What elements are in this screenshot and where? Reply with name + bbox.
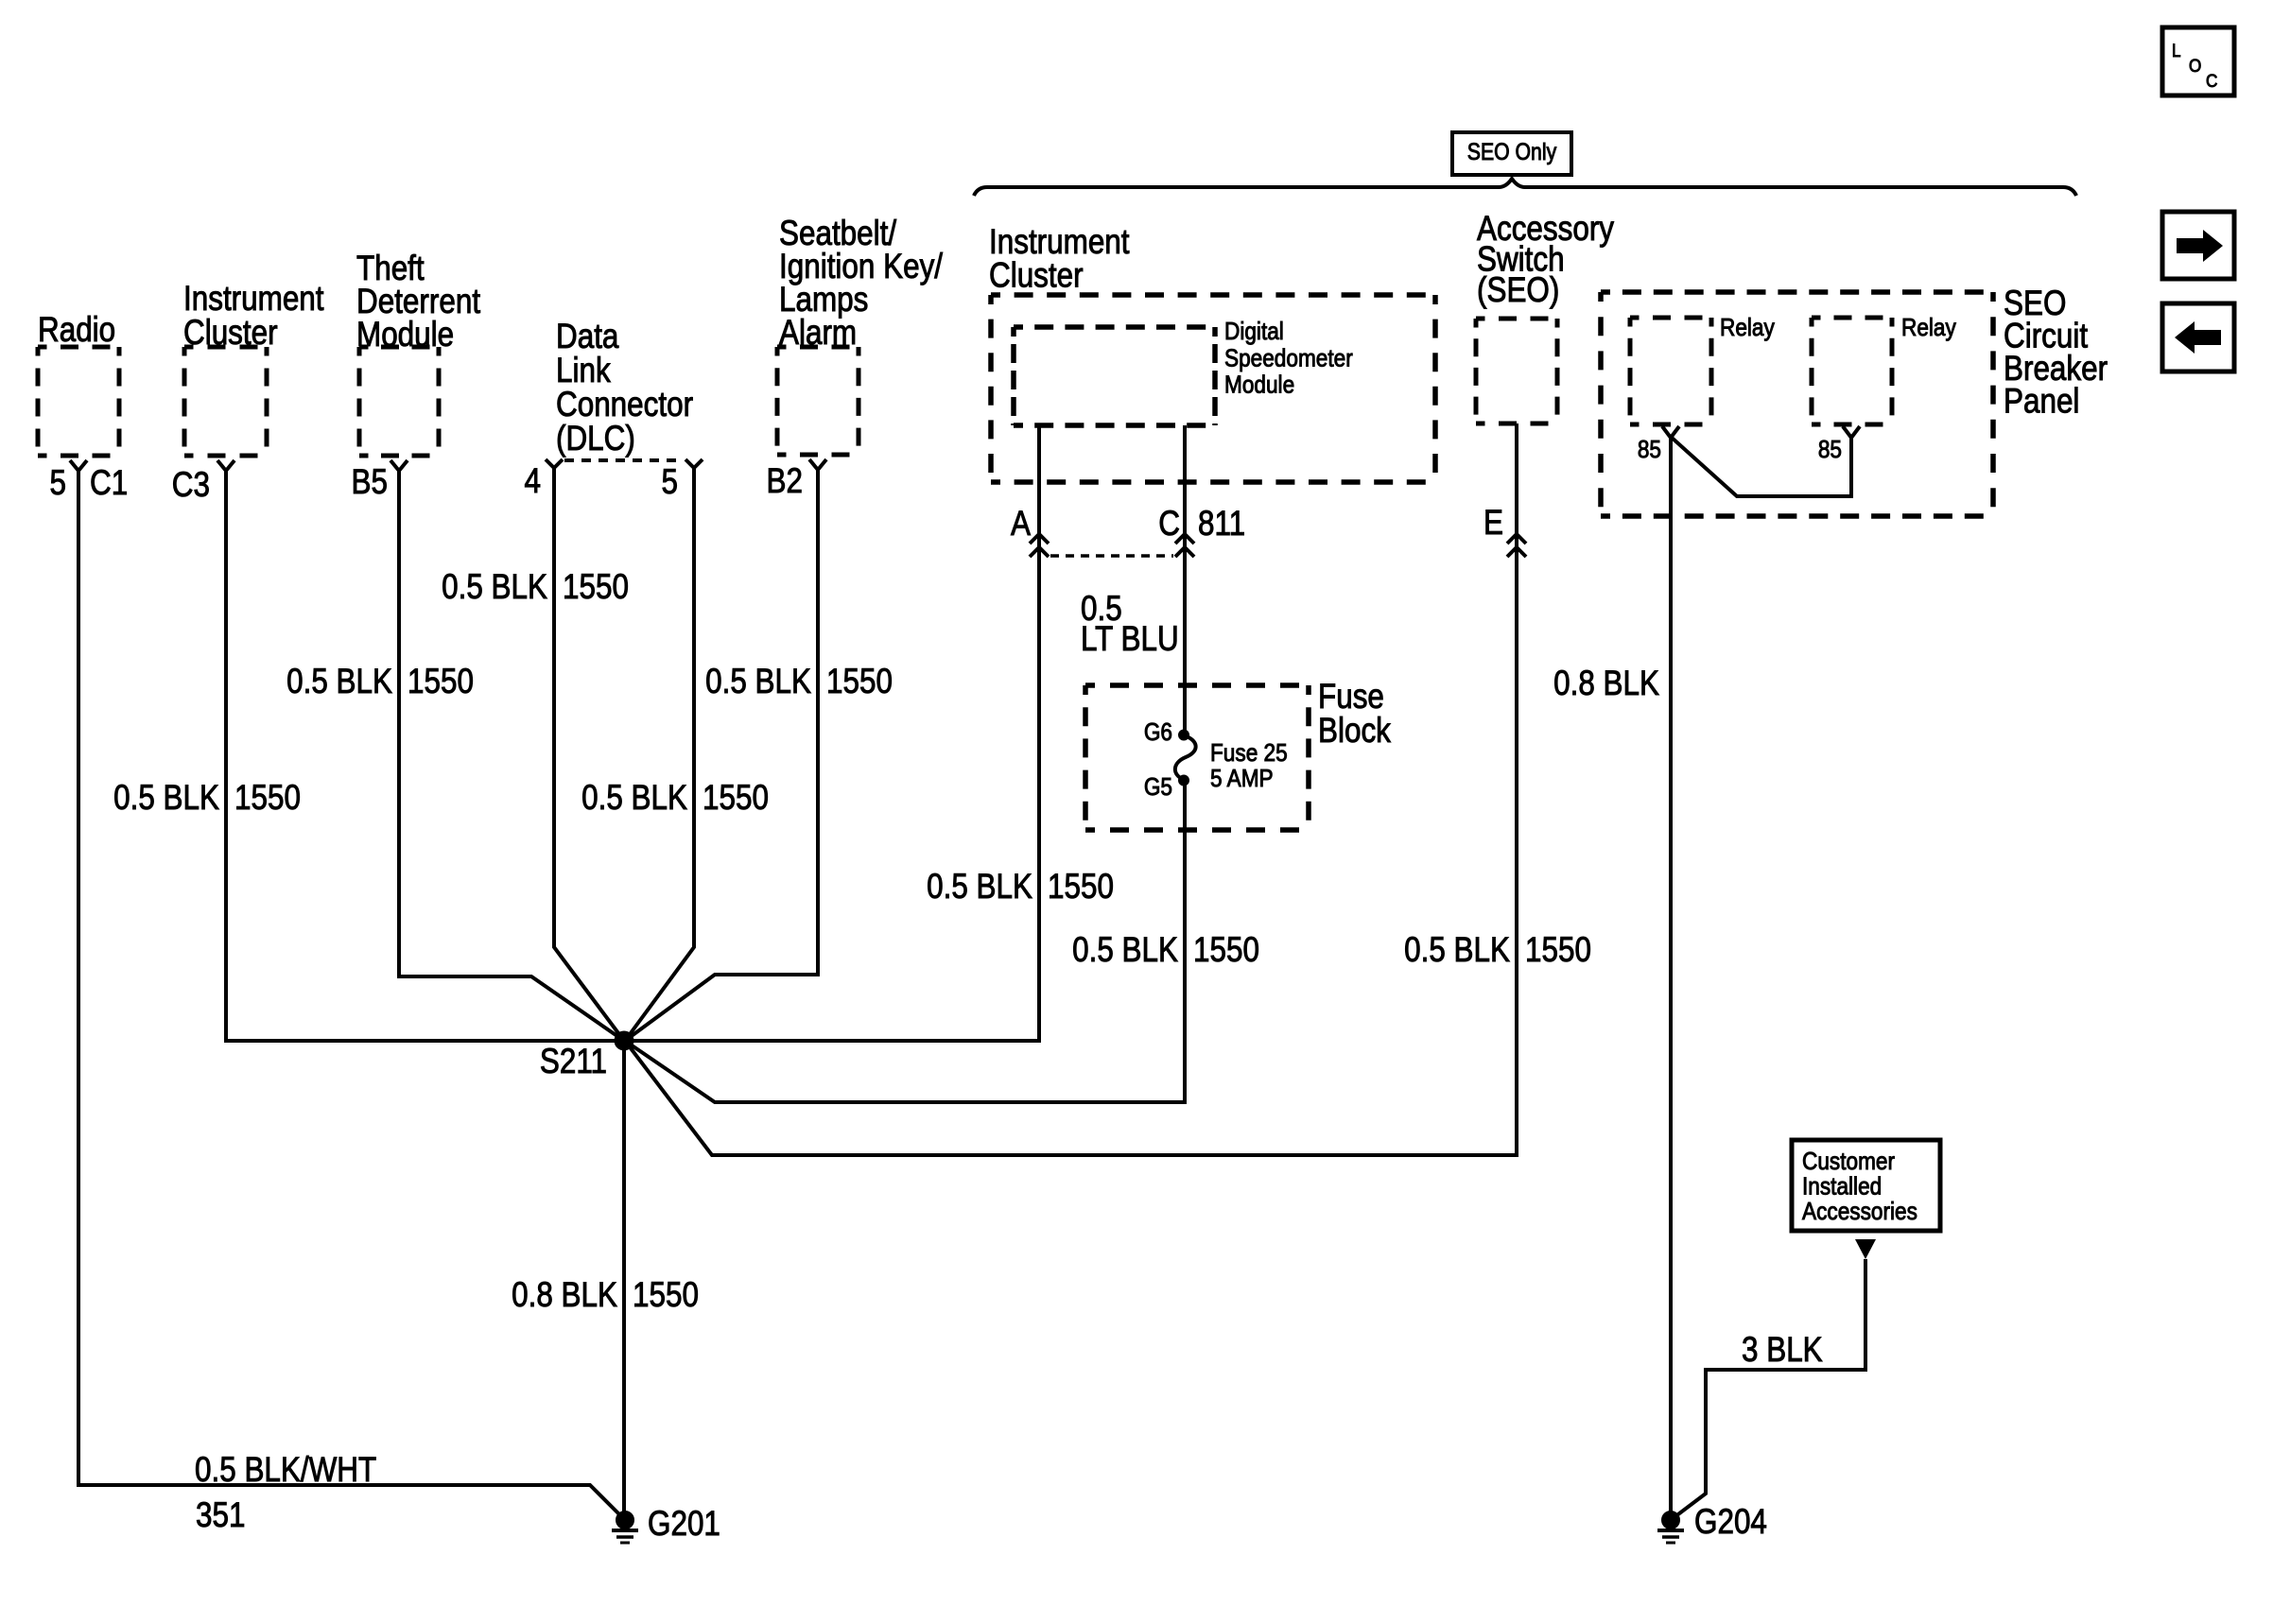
svg-text:Module: Module [356,316,454,354]
svg-text:0.5 BLK: 0.5 BLK [442,568,547,607]
svg-text:0.5 BLK: 0.5 BLK [1072,931,1178,970]
terminal 5 C1 of Radio [50,460,129,503]
svg-text:85: 85 [1818,437,1842,464]
svg-text:G201: G201 [648,1505,720,1544]
inline connector dashed link A to C [1050,554,1173,558]
label Data Link Connector (DLC) [556,318,693,458]
svg-text:Block: Block [1318,712,1392,751]
svg-text:Module: Module [1224,371,1294,399]
svg-text:0.8 BLK: 0.8 BLK [512,1276,617,1315]
svg-text:Relay: Relay [1720,315,1776,342]
svg-text:0.8 BLK: 0.8 BLK [1553,665,1659,703]
svg-text:B5: B5 [352,463,388,502]
svg-text:5 AMP: 5 AMP [1210,766,1274,793]
label Fuse Block [1318,678,1392,751]
right arrow legend [2162,212,2234,279]
terminal 85 of relay 2 [1818,426,1860,463]
module Digital Speedometer Module (inner dashed box) [1014,327,1215,425]
svg-text:Customer: Customer [1802,1149,1895,1176]
svg-text:1550: 1550 [408,663,474,701]
svg-text:0.5 BLK: 0.5 BLK [286,663,392,701]
svg-text:Cluster: Cluster [989,256,1084,295]
connector Theft Deterrent Module (dashed box) [359,347,439,456]
svg-text:C3: C3 [172,466,210,505]
svg-text:C: C [2206,71,2217,91]
wire Accessory Switch E to S211 [625,423,1517,1155]
wire label 0.5 BLK 1550 on B5 [286,663,474,701]
svg-text:Digital: Digital [1224,319,1284,346]
svg-text:Link: Link [556,352,611,390]
terminal triangle of Customer Installed Accessories [1855,1239,1876,1259]
svg-text:S211: S211 [540,1043,607,1081]
svg-text:1550: 1550 [1048,868,1114,907]
label Instrument Cluster left [183,280,324,353]
svg-text:L: L [2172,41,2181,60]
wire Digital Speedometer C/811 to fuse G6 [1183,425,1187,734]
connector Accessory Switch SEO (dashed box) [1476,319,1557,423]
label Theft Deterrent Module [356,250,480,354]
terminal 85 of relay 1 [1638,426,1679,463]
svg-text:0.5 BLK: 0.5 BLK [705,663,811,701]
svg-text:0.5 BLK: 0.5 BLK [927,868,1032,907]
svg-text:E: E [1484,504,1503,543]
wire relay1-85 to G204 (0.8 BLK) [1669,437,1673,1520]
svg-text:G204: G204 [1694,1503,1767,1542]
wire DLC-4 to S211 [554,468,624,1041]
svg-text:O: O [2189,56,2201,76]
wire Instrument Cluster C3 to S211 [226,471,624,1041]
svg-text:Accessories: Accessories [1802,1199,1917,1226]
wire label 0.5 BLK 1550 on wire A [927,868,1114,907]
fuse block (dashed box) [1085,685,1309,830]
label Digital Speedometer Module [1224,319,1353,399]
svg-text:Cluster: Cluster [183,314,278,353]
relay 1 (dashed box) [1630,318,1711,424]
wire label 0.5 BLK 1550 on B2 [705,663,893,701]
svg-text:0.5 BLK/WHT: 0.5 BLK/WHT [195,1451,376,1490]
wire S211 to G201 (0.8 BLK 1550) [622,1041,626,1520]
label Fuse 25 5 AMP [1210,740,1288,793]
terminal B5 [352,460,408,502]
module Customer Installed Accessories (solid box) [1792,1140,1940,1231]
svg-text:1550: 1550 [563,568,629,607]
wire Seatbelt B2 to S211 [625,470,818,1041]
inline connector chevrons on wire E [1507,534,1526,557]
svg-text:Speedometer: Speedometer [1224,345,1353,372]
wire fuse G5 to S211 [625,780,1185,1102]
svg-text:Connector: Connector [556,386,693,424]
svg-text:0.5 BLK: 0.5 BLK [1404,931,1510,970]
left arrow legend [2162,303,2234,371]
inline connector chevrons on wire C [1175,534,1194,557]
svg-text:G6: G6 [1144,719,1172,747]
svg-text:Radio: Radio [38,311,115,350]
svg-text:Fuse: Fuse [1318,678,1384,717]
svg-text:LT BLU: LT BLU [1081,620,1179,659]
svg-text:1550: 1550 [633,1276,699,1315]
svg-text:0.5 BLK: 0.5 BLK [113,779,219,818]
fuse Fuse 25 5 AMP element [1175,730,1196,786]
connector Seatbelt/Ignition Key/Lamps Alarm (dashed box) [777,347,859,455]
label Accessory Switch (SEO) [1477,210,1615,310]
svg-text:Data: Data [556,318,619,356]
terminal C3 [172,460,234,505]
terminal 5 of DLC [662,459,703,502]
wire label 0.8 BLK 1550 on S211 ground wire [512,1276,699,1315]
wire label 0.5 LT BLU on wire C [1081,590,1179,659]
relay 2 (dashed box) [1812,318,1892,424]
svg-text:1550: 1550 [1525,931,1591,970]
wire label 0.5 BLK 1550 on wire C lower [1072,931,1259,970]
svg-text:5: 5 [662,463,678,502]
ground G201 [612,1505,720,1544]
svg-text:0.5 BLK: 0.5 BLK [581,779,687,818]
svg-text:351: 351 [196,1496,245,1535]
svg-text:A: A [1011,505,1031,544]
svg-text:3 BLK: 3 BLK [1742,1331,1823,1370]
LOC legend box [2162,27,2234,95]
wire Theft Deterrent B5 to S211 [399,471,624,1041]
svg-text:B2: B2 [767,462,803,501]
svg-text:Panel: Panel [2004,382,2079,421]
inline connector chevrons on wire A [1030,534,1049,557]
label SEO Circuit Breaker Panel [2004,285,2108,421]
svg-text:Fuse 25: Fuse 25 [1210,740,1288,768]
svg-text:811: 811 [1198,505,1245,544]
wire DLC-5 to S211 [625,468,694,1041]
wire label 0.5 BLK 1550 on wire E [1404,931,1591,970]
svg-text:G5: G5 [1144,774,1172,802]
svg-text:1550: 1550 [826,663,893,701]
svg-text:Relay: Relay [1901,315,1957,342]
svg-text:(SEO): (SEO) [1477,271,1559,310]
SEO Only tag [1452,132,1571,175]
svg-text:4: 4 [525,462,541,501]
svg-text:C: C [1158,505,1180,544]
wire label 0.5 BLK 1550 on C3 [113,779,301,818]
wire relay1-85 to relay2-85 bridge [1671,437,1851,496]
svg-text:1550: 1550 [703,779,769,818]
wire Customer Installed Accessories to G204 (3 BLK) [1671,1259,1865,1520]
module SEO Circuit Breaker Panel (big dashed box) [1601,292,1993,516]
connector Radio (dashed box) [38,347,119,456]
module Instrument Cluster right (big dashed box) [991,295,1435,482]
terminal 4 of DLC [525,459,563,501]
wire label 0.5 BLK 1550 on DLC-5 [581,779,769,818]
wire Instrument Cluster A to S211 [624,425,1039,1041]
connector DLC dashed link line [564,458,683,462]
label Instrument Cluster right [989,223,1130,295]
splice S211 [540,1031,633,1081]
svg-text:SEO Only: SEO Only [1467,138,1557,164]
svg-text:Installed: Installed [1802,1173,1882,1201]
svg-text:Alarm: Alarm [779,314,857,353]
SEO Only brace [974,179,2076,196]
svg-text:85: 85 [1638,437,1661,464]
wire label 0.5 BLK 1550 on DLC-4 [442,568,629,607]
svg-text:(DLC): (DLC) [556,420,635,458]
terminal B2 [767,459,826,501]
svg-text:C1: C1 [90,464,128,503]
ground G204 [1657,1503,1767,1543]
svg-text:1550: 1550 [1193,931,1259,970]
wire label 0.5 BLK/WHT 351 [195,1451,376,1535]
svg-text:Instrument: Instrument [183,280,324,319]
wire Radio-5 to G201 (0.5 BLK/WHT 351) [78,471,625,1520]
svg-text:5: 5 [50,464,66,503]
connector Instrument Cluster left (dashed box) [184,347,267,456]
svg-text:1550: 1550 [234,779,301,818]
label Seatbelt/Ignition Key/Lamps Alarm [779,215,943,353]
